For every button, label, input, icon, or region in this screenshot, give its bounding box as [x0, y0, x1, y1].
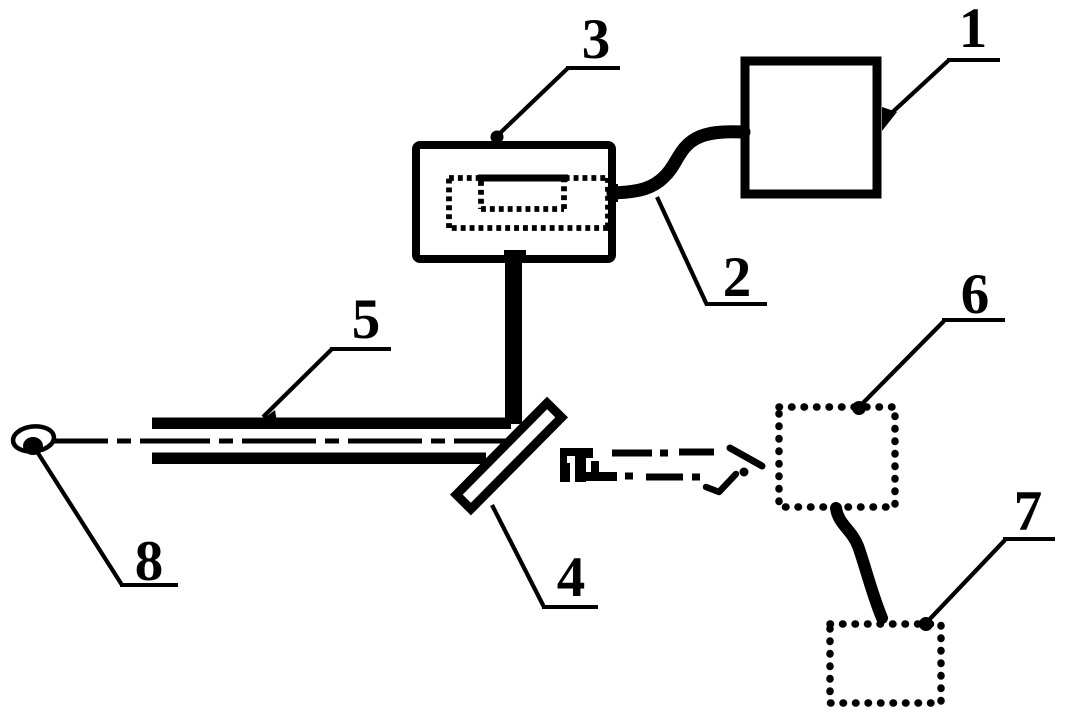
svg-text:4: 4 [557, 546, 586, 609]
svg-text:6: 6 [961, 263, 990, 326]
svg-text:7: 7 [1014, 480, 1043, 543]
svg-text:2: 2 [723, 246, 752, 309]
svg-text:3: 3 [582, 8, 611, 71]
svg-text:5: 5 [352, 288, 381, 351]
svg-text:8: 8 [135, 530, 164, 593]
svg-text:1: 1 [959, 0, 988, 60]
